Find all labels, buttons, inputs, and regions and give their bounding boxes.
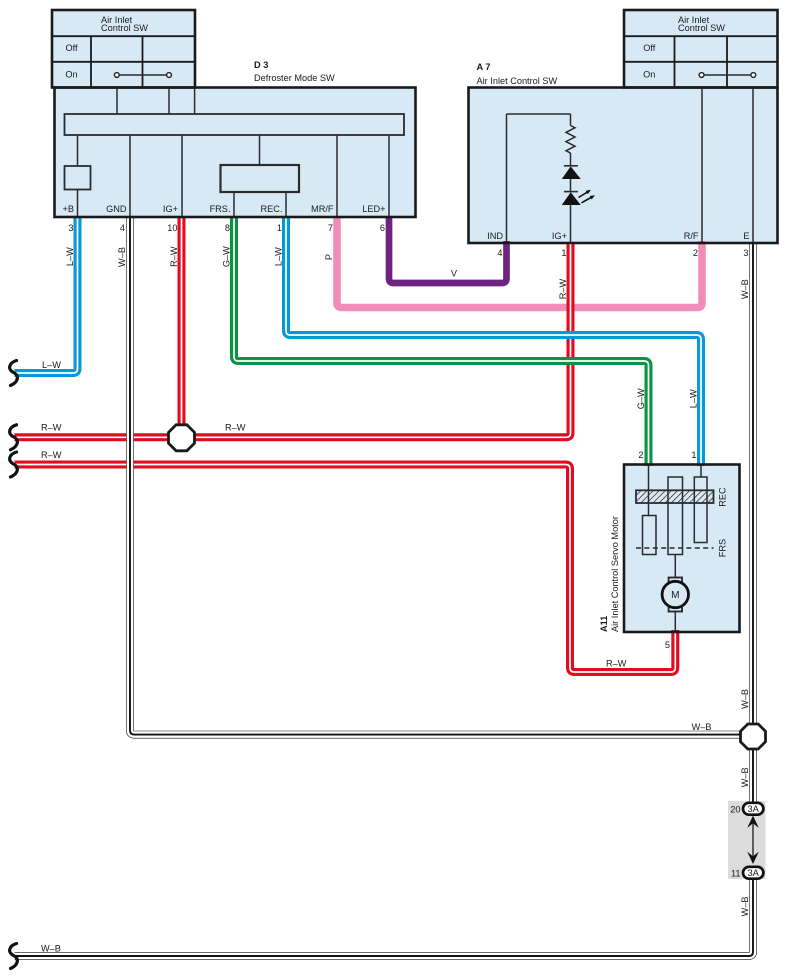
svg-text:REC: REC: [718, 487, 728, 507]
svg-text:On: On: [643, 70, 655, 80]
svg-text:10: 10: [167, 223, 177, 233]
svg-text:E: E: [743, 231, 749, 241]
svg-text:FRS.: FRS.: [210, 204, 231, 214]
svg-text:R–W: R–W: [558, 278, 568, 299]
svg-text:R–W: R–W: [41, 423, 62, 433]
svg-text:R–W: R–W: [169, 246, 179, 267]
svg-text:Off: Off: [643, 43, 656, 53]
svg-text:V: V: [451, 269, 458, 279]
svg-text:8: 8: [225, 223, 230, 233]
svg-text:GND: GND: [106, 204, 127, 214]
svg-text:W–B: W–B: [117, 247, 127, 267]
svg-text:W–B: W–B: [740, 689, 750, 709]
svg-text:Defroster Mode SW: Defroster Mode SW: [254, 73, 335, 83]
svg-text:Air Inlet Control SW: Air Inlet Control SW: [477, 76, 558, 86]
svg-text:3: 3: [743, 248, 748, 258]
svg-text:L–W: L–W: [42, 360, 61, 370]
svg-text:FRS: FRS: [718, 539, 728, 557]
svg-text:L–W: L–W: [274, 247, 284, 266]
svg-text:2: 2: [638, 450, 643, 460]
svg-text:3A: 3A: [748, 868, 760, 878]
svg-text:W–B: W–B: [740, 767, 750, 787]
svg-text:IG+: IG+: [552, 231, 567, 241]
svg-text:11: 11: [731, 868, 741, 878]
svg-text:REC.: REC.: [261, 204, 283, 214]
svg-text:R–W: R–W: [606, 659, 627, 669]
svg-text:A11: A11: [599, 616, 609, 632]
svg-text:L–W: L–W: [65, 247, 75, 266]
svg-text:4: 4: [497, 248, 502, 258]
svg-text:R–W: R–W: [225, 423, 246, 433]
svg-text:4: 4: [120, 223, 125, 233]
svg-text:1: 1: [561, 248, 566, 258]
svg-text:IND: IND: [487, 231, 503, 241]
svg-text:W–B: W–B: [740, 896, 750, 916]
svg-text:1: 1: [277, 223, 282, 233]
svg-text:7: 7: [328, 223, 333, 233]
svg-text:D 3: D 3: [254, 60, 268, 70]
svg-text:Off: Off: [65, 43, 78, 53]
svg-text:3A: 3A: [748, 804, 760, 814]
svg-text:W–B: W–B: [41, 944, 61, 954]
svg-text:IG+: IG+: [163, 204, 178, 214]
svg-text:MR/F: MR/F: [311, 204, 334, 214]
svg-text:W–B: W–B: [740, 279, 750, 299]
svg-text:On: On: [65, 70, 77, 80]
svg-text:W–B: W–B: [692, 722, 712, 732]
svg-text:G–W: G–W: [222, 246, 232, 267]
svg-text:20: 20: [730, 804, 740, 814]
svg-text:P: P: [324, 254, 334, 260]
svg-text:Air Inlet Control Servo Motor: Air Inlet Control Servo Motor: [610, 516, 620, 632]
svg-text:Control SW: Control SW: [678, 23, 725, 33]
svg-text:+B: +B: [63, 204, 75, 214]
svg-text:M: M: [671, 590, 679, 601]
svg-text:R/F: R/F: [684, 231, 699, 241]
svg-text:5: 5: [665, 640, 670, 650]
svg-text:Control SW: Control SW: [101, 23, 148, 33]
svg-text:G–W: G–W: [636, 388, 646, 409]
svg-text:1: 1: [691, 450, 696, 460]
svg-text:R–W: R–W: [41, 450, 62, 460]
svg-text:L–W: L–W: [689, 389, 699, 408]
svg-text:2: 2: [693, 248, 698, 258]
svg-text:6: 6: [380, 223, 385, 233]
svg-text:3: 3: [68, 223, 73, 233]
svg-text:A 7: A 7: [477, 62, 491, 72]
svg-text:LED+: LED+: [362, 204, 385, 214]
